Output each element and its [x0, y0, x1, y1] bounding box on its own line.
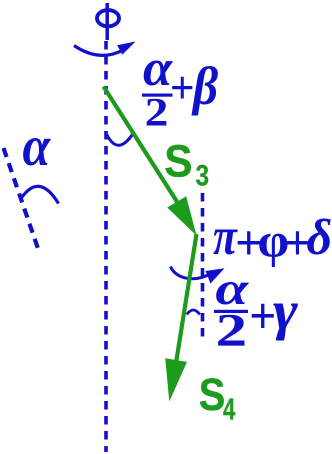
angle arc alpha/2+beta	[107, 134, 133, 146]
arrowhead of S4	[165, 358, 187, 401]
fraction bar 2	[214, 310, 248, 313]
arrowhead of S3	[167, 196, 196, 235]
svg-text:+: +	[249, 286, 276, 344]
svg-text:α: α	[23, 114, 52, 178]
ray S4 (green arrow)	[173, 234, 197, 382]
label phi (top)	[97, 10, 119, 26]
svg-text:3: 3	[196, 159, 210, 192]
angle arc alpha (left)	[20, 186, 59, 203]
svg-text:S: S	[199, 371, 226, 421]
second vertical dashed line (at bend)	[201, 193, 205, 340]
svg-text:δ: δ	[307, 209, 332, 265]
fraction bar 1	[142, 94, 173, 97]
slanted dashed line (alpha direction)	[4, 148, 39, 250]
svg-text:π: π	[213, 207, 238, 266]
angle arc alpha/2+gamma	[187, 310, 200, 315]
svg-text:S: S	[164, 136, 192, 186]
rotation arc for phi	[74, 46, 124, 56]
svg-text:4: 4	[223, 392, 236, 426]
svg-text:2: 2	[215, 305, 247, 356]
arrowhead of bend arc	[206, 268, 225, 283]
axis: main vertical dashed line	[104, 41, 108, 452]
svg-text:α: α	[143, 39, 173, 97]
rotation arc pi+phi+delta (at bend)	[171, 267, 214, 279]
arrowhead of phi arc	[117, 42, 135, 55]
ray S3 (green arrow)	[104, 87, 182, 209]
svg-text:2: 2	[145, 90, 169, 135]
svg-text:β: β	[191, 57, 219, 117]
svg-text:+: +	[170, 62, 195, 114]
svg-text:γ: γ	[273, 282, 298, 342]
